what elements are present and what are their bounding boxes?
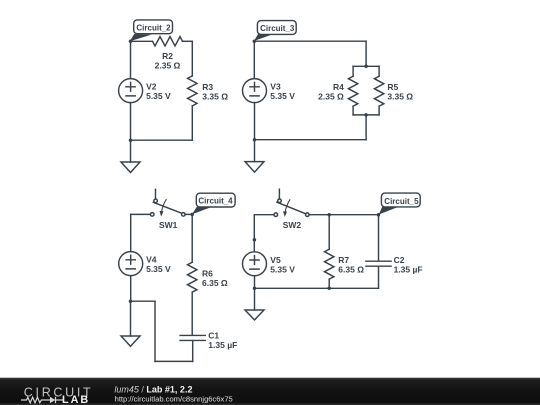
value label C1 / 1.35 µF — [208, 331, 237, 351]
wire: R5 top lead — [378, 66, 380, 76]
node: circuit 4 label node dot — [190, 213, 194, 217]
wire: top from corner to SW1 left terminal — [131, 213, 151, 215]
wire: top from corner to SW2 left terminal — [254, 214, 274, 216]
wire: V5 minus to bottom junction — [254, 276, 256, 289]
wire: C1 bottom plate down — [192, 341, 194, 361]
node label flag Circuit_4 — [192, 193, 235, 214]
svg-text:2.35 Ω: 2.35 Ω — [155, 61, 181, 71]
node label flag Circuit_2 — [130, 20, 173, 41]
svg-text:1.35 µF: 1.35 µF — [208, 340, 237, 350]
wire: R3 bottom to bottom-right corner — [191, 106, 193, 140]
svg-text:lum45 / Lab #1, 2.2: lum45 / Lab #1, 2.2 — [114, 384, 192, 394]
svg-text:R6: R6 — [202, 268, 213, 278]
value label R4 / 2.35 Ω — [318, 82, 344, 102]
wire: R5 bottom lead — [378, 106, 380, 115]
svg-text:5.35 V: 5.35 V — [270, 264, 295, 274]
wire: R7 bottom lead — [328, 279, 330, 288]
footer background bar — [0, 378, 540, 405]
svg-text:Circuit_4: Circuit_4 — [198, 197, 233, 206]
wire: left vertical (corner to V5) — [253, 215, 255, 252]
svg-text:C2: C2 — [394, 255, 405, 265]
svg-text:Circuit_3: Circuit_3 — [260, 24, 295, 33]
wire: R4 bottom lead — [352, 106, 354, 115]
wire: riser to V4 bottom junction — [131, 300, 156, 302]
wire: V4 minus to bottom junction — [130, 276, 132, 302]
node: parallel bottom junction dot — [364, 113, 368, 117]
wire: V3 minus to bottom junction — [254, 103, 256, 140]
svg-text:3.35 Ω: 3.35 Ω — [387, 92, 413, 102]
wire: R7 top lead — [328, 215, 330, 250]
value label R3 / 3.35 Ω — [202, 82, 228, 102]
voltage source V3 — [243, 79, 267, 103]
svg-text:R3: R3 — [202, 82, 213, 92]
value label C2 / 1.35 µF — [394, 255, 423, 275]
svg-text:5.35 V: 5.35 V — [146, 264, 171, 274]
wire: parallel top bar — [353, 65, 379, 67]
svg-text:V5: V5 — [270, 255, 281, 265]
wire: top-left node to R2 left lead — [131, 40, 153, 42]
node label flag Circuit_3 — [254, 21, 296, 41]
wire: R4 top lead — [352, 66, 354, 76]
switch SW1 — [150, 189, 185, 216]
svg-text:C1: C1 — [208, 331, 219, 341]
ground (circuit 2) — [121, 162, 140, 173]
svg-text:6.35 Ω: 6.35 Ω — [202, 278, 228, 288]
svg-text:V3: V3 — [270, 82, 281, 92]
wire: bottom horizontal — [255, 139, 367, 141]
value label R6 / 6.35 Ω — [202, 268, 228, 288]
ground (circuit 3) — [245, 162, 264, 173]
capacitor C1 — [180, 335, 205, 340]
node: V5 bottom junction dot — [253, 287, 257, 291]
wire: V2 minus to bottom junction — [130, 103, 132, 141]
resistor R7 — [325, 249, 334, 279]
value label V4 / 5.35 V — [146, 255, 171, 275]
node: R7 bottom junction dot — [327, 287, 331, 291]
svg-text:3.35 Ω: 3.35 Ω — [202, 91, 228, 101]
svg-text:SW2: SW2 — [283, 220, 302, 230]
wire: R6 bottom to C1 top plate — [191, 292, 193, 335]
voltage source V5 — [243, 252, 267, 276]
svg-text:R4: R4 — [333, 82, 344, 92]
node: circuit 2 top-left (junction dot) — [129, 40, 133, 44]
svg-text:R2: R2 — [162, 51, 173, 61]
wire: bottom horizontal (C1 to riser) — [155, 360, 193, 362]
wire: R2 right lead to top-right corner — [183, 40, 193, 42]
svg-text:Circuit_2: Circuit_2 — [136, 23, 171, 32]
capacitor C2 — [366, 261, 391, 266]
svg-text:Circuit_5: Circuit_5 — [384, 197, 419, 206]
node: wire joint dot on V5 top lead — [253, 238, 257, 242]
resistor R5 — [374, 76, 383, 106]
svg-text:V4: V4 — [146, 255, 157, 265]
value label V3 / 5.35 V — [270, 82, 295, 102]
node: V4 bottom junction dot — [129, 299, 133, 303]
wire: bottom horizontal — [255, 287, 379, 289]
switch SW2 — [274, 189, 309, 217]
node: circuit 2 bottom junction dot — [129, 138, 133, 142]
wire: top-right corner down to parallel top bar — [365, 41, 367, 66]
resistor R3 — [188, 76, 197, 106]
node: parallel top junction dot — [364, 65, 368, 69]
node: R7 top junction dot — [327, 213, 331, 217]
value label R5 / 3.35 Ω — [387, 82, 413, 102]
resistor R4 — [348, 76, 357, 106]
svg-text:2.35 Ω: 2.35 Ω — [318, 92, 344, 102]
wire: SW1 right terminal to label node — [185, 213, 192, 215]
wire: riser up — [154, 301, 156, 361]
svg-text:5.35 V: 5.35 V — [270, 91, 295, 101]
svg-text:SW1: SW1 — [159, 220, 178, 230]
value label V2 / 5.35 V — [146, 82, 171, 102]
wire: SW2 right terminal to R7 top junction and corner — [309, 214, 378, 216]
wire: ground stub of circuit 2 — [130, 140, 132, 162]
voltage source V2 — [119, 79, 143, 103]
svg-text:6.35 Ω: 6.35 Ω — [338, 265, 364, 275]
wire: parallel bottom to bottom wire — [365, 115, 367, 140]
wire: ground stub of circuit 3 — [254, 140, 256, 162]
wire: right vertical to R6 — [191, 214, 193, 262]
wire: right vertical upper (corner down to R3 top) — [191, 41, 193, 76]
value label V5 / 5.35 V — [270, 255, 295, 275]
node: circuit 3 bottom junction dot — [253, 138, 257, 142]
node label flag Circuit_5 — [379, 193, 420, 214]
ground (circuit 4) — [121, 336, 140, 346]
svg-text:R7: R7 — [338, 255, 349, 265]
voltage source V4 — [119, 252, 143, 276]
wire: bottom horizontal — [131, 139, 193, 141]
wire: left vertical upper (node to V3) — [253, 41, 255, 78]
wire: ground stub of circuit 5 — [254, 288, 256, 310]
resistor R2 — [153, 37, 183, 46]
wire: corner down to C2 top plate — [378, 215, 380, 261]
wire: ground stub of circuit 4 — [130, 301, 132, 336]
svg-text:R5: R5 — [387, 82, 398, 92]
wire: left vertical upper (node to V2 plus) — [130, 41, 132, 78]
node: circuit 3 top-left dot — [253, 39, 256, 43]
value label R2 / 2.35 Ω — [155, 51, 181, 71]
logo resistor zigzag and diode — [21, 397, 64, 403]
wire: left vertical (corner to V4) — [130, 214, 132, 251]
svg-text:5.35 V: 5.35 V — [146, 91, 171, 101]
node: circuit 5 label node dot — [377, 213, 381, 217]
svg-text:V2: V2 — [146, 82, 157, 92]
resistor R6 — [188, 262, 197, 292]
svg-text:LAB: LAB — [62, 394, 90, 405]
value label R7 / 6.35 Ω — [338, 255, 364, 275]
wire: top horizontal — [254, 40, 366, 42]
wire: C2 bottom plate down — [378, 267, 380, 289]
svg-text:1.35 µF: 1.35 µF — [394, 265, 423, 275]
wire: parallel bottom bar — [353, 114, 379, 116]
ground (circuit 5) — [245, 310, 264, 320]
svg-text:http://circuitlab.com/c8snnjg6: http://circuitlab.com/c8snnjg6c6x75 — [115, 394, 233, 403]
